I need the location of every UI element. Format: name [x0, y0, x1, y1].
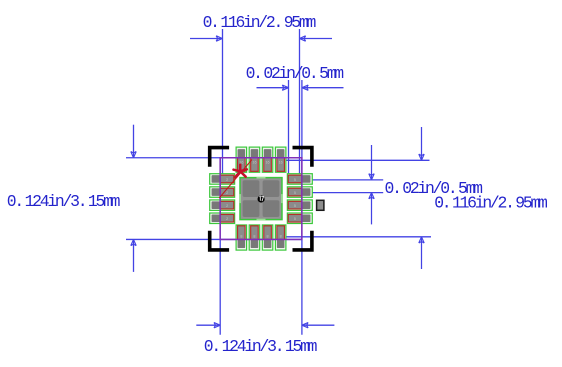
svg-text:2: 2 — [226, 191, 228, 195]
svg-text:2: 2 — [226, 204, 228, 208]
svg-text:16: 16 — [252, 160, 256, 164]
svg-text:5: 5 — [294, 178, 296, 182]
svg-text:8: 8 — [267, 234, 269, 238]
svg-text:16: 16 — [279, 160, 283, 164]
svg-text:0.124in/3.15mm: 0.124in/3.15mm — [204, 337, 317, 356]
svg-text:16: 16 — [265, 160, 269, 164]
svg-text:8: 8 — [253, 234, 255, 238]
svg-text:2: 2 — [226, 178, 228, 182]
svg-text:5: 5 — [294, 204, 296, 208]
svg-text:0.116in/2.95mm: 0.116in/2.95mm — [203, 13, 316, 32]
svg-text:8: 8 — [280, 234, 282, 238]
svg-text:0.02in/0.5mm: 0.02in/0.5mm — [246, 64, 344, 83]
svg-text:8: 8 — [240, 234, 242, 238]
svg-text:5: 5 — [294, 217, 296, 221]
svg-text:2: 2 — [226, 217, 228, 221]
svg-text:5: 5 — [294, 191, 296, 195]
svg-text:0.116in/2.95mm: 0.116in/2.95mm — [434, 194, 547, 213]
svg-text:0.124in/3.15mm: 0.124in/3.15mm — [7, 192, 120, 211]
